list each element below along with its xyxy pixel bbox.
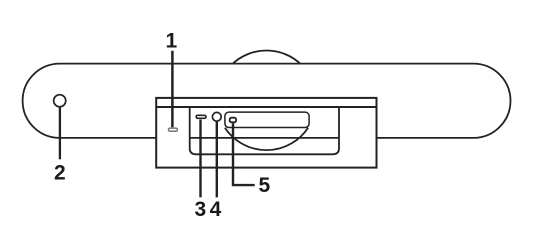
svg-text:3: 3 [195,198,207,221]
svg-text:1: 1 [166,29,178,52]
svg-text:5: 5 [259,174,271,197]
svg-text:4: 4 [210,198,222,221]
svg-text:2: 2 [54,161,66,184]
